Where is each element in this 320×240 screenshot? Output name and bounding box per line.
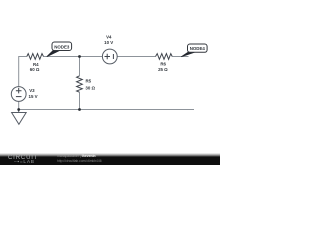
voltage source V4: [102, 34, 117, 64]
wire bottom rail: [19, 109, 194, 111]
node NODE3 callout: [47, 42, 72, 57]
svg-text:60 Ω: 60 Ω: [30, 67, 40, 72]
watermark text: [57, 154, 102, 164]
resistor R5: [77, 76, 96, 92]
svg-text:30 Ω: 30 Ω: [85, 86, 95, 91]
wire R6 to NODE4 open end: [172, 56, 188, 58]
junction node at V3/ground: [17, 108, 20, 111]
wire V3 bottom to ground junction: [18, 102, 20, 110]
voltage source V3: [11, 87, 37, 102]
svg-text:V4: V4: [106, 34, 112, 39]
wire R5 branch vertical: [79, 57, 81, 110]
svg-text:NODE3: NODE3: [54, 44, 70, 49]
junction node at R5 bottom: [78, 108, 81, 111]
wire V4 to R6: [117, 56, 155, 58]
resistor R6: [156, 54, 173, 72]
wire R4 to R5 junction: [44, 56, 80, 58]
CircuitLab logo: [8, 155, 56, 165]
resistor R4: [27, 54, 44, 72]
svg-text:25 Ω: 25 Ω: [158, 67, 168, 72]
node NODE4 callout: [181, 44, 207, 57]
svg-text:10 V: 10 V: [104, 40, 113, 45]
svg-text:R5: R5: [86, 79, 92, 84]
junction node at R5 top: [78, 55, 81, 58]
svg-text:15 V: 15 V: [29, 94, 38, 99]
svg-text:R6: R6: [160, 62, 166, 67]
ground: [12, 110, 27, 125]
wire top-left horizontal + left vertical rail: [19, 57, 27, 87]
watermark bar: [0, 153, 220, 165]
svg-text:V3: V3: [29, 88, 35, 93]
wire R5 junction to V4: [80, 56, 103, 58]
svg-text:NODE4: NODE4: [190, 46, 206, 51]
